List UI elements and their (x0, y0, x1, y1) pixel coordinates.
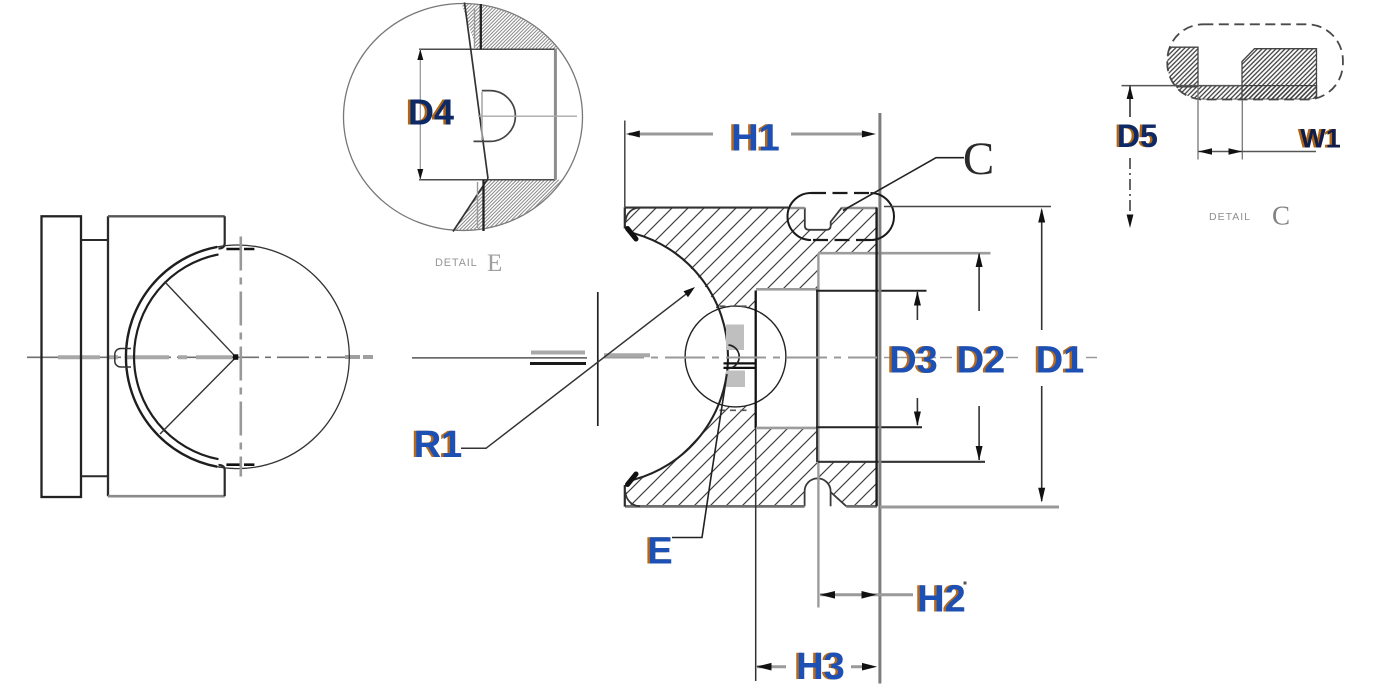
left view: body left edge (107, 216, 109, 496)
dimension D2: line (978, 254, 980, 460)
counterbore bottom edge (extends to D2) (818, 461, 985, 463)
center slit lines (724, 363, 756, 368)
ball seat gray groove lower (726, 371, 745, 388)
dimension D1: arrows (1038, 208, 1045, 223)
dimension H1: extension line left (624, 121, 626, 208)
corner fillet bottom-left (626, 492, 641, 506)
left view: socket band inner arc (134, 254, 218, 459)
detail E: D4 arrows (417, 49, 423, 60)
dimension H3: arrows (756, 663, 771, 671)
dimension H1: line (629, 133, 862, 136)
groove outline (bottom) (805, 478, 847, 506)
section view: upper hatched body (625, 208, 877, 311)
left face edges (624, 207, 626, 506)
svg-text:H3: H3 (796, 646, 845, 688)
svg-text:C: C (963, 133, 994, 185)
left view: corner dash ticks (226, 248, 254, 251)
detail E: magnified socket arc line lower (453, 179, 488, 232)
detail C: right block hatch (1242, 49, 1317, 100)
svg-text:D4: D4 (408, 92, 454, 133)
detail C: left block hatch (1160, 47, 1198, 87)
bore left wall extension (H3) (755, 428, 757, 681)
detail E: bubble ellipse (344, 4, 583, 231)
left view: body right edge top segment + hook (219, 216, 225, 248)
dimension D2: arrows (976, 253, 983, 268)
svg-text:DETAIL: DETAIL (435, 257, 478, 269)
detail C: W1 arrows (1198, 148, 1212, 155)
label E with leader (672, 374, 727, 538)
svg-text:W1: W1 (1300, 124, 1341, 154)
groove white cut (bottom) (805, 478, 831, 507)
svg-text:DETAIL: DETAIL (1209, 211, 1251, 223)
detail C: groove floor line extended (1122, 85, 1243, 87)
detail E: dark wall verticals (481, 4, 484, 231)
svg-text:D2: D2 (957, 340, 1006, 382)
left view: flange rectangle (42, 216, 82, 497)
detail C indicator stadium (787, 193, 894, 240)
left view: socket band outer arc (126, 247, 217, 467)
dimension H3: line (757, 665, 865, 668)
hidden dashed line lower (720, 409, 750, 411)
left view: vertical centerline (240, 237, 243, 477)
socket arc end blob bottom (628, 474, 637, 485)
detail E: notch wall gray (481, 92, 483, 140)
left view: center dot (233, 354, 239, 360)
svg-text:R1: R1 (414, 424, 463, 466)
left view: body bottom edge (108, 495, 225, 498)
left view: neck lines (81, 240, 108, 476)
notch bump arc at center (729, 345, 740, 369)
dimension H2: arrows (820, 591, 835, 599)
sphere center crosshair vertical (597, 292, 599, 426)
hidden dashed line upper (720, 305, 750, 307)
ball seat gray groove upper (726, 325, 744, 351)
detail E: centerline (478, 115, 577, 117)
centerline black dash segments (530, 362, 586, 365)
dimension D1: extension top (884, 206, 1051, 208)
dimension H2: line (820, 593, 913, 596)
detail E: magnified socket arc line upper (465, 3, 489, 179)
label R1 with leader (461, 291, 691, 449)
socket arc end blob top (628, 229, 637, 240)
left view: big circle (126, 245, 350, 469)
left view: body right edge bottom segment + hook (219, 465, 225, 496)
svg-text:C: C (1272, 201, 1290, 231)
bore left wall (755, 291, 757, 429)
dimension D1: extension bottom (880, 506, 1059, 509)
detail C: D5 dash-dot lower with down arrow (1129, 158, 1131, 221)
detail E: magnified bore bottom edge (419, 179, 555, 181)
detail E: gray parallels (475, 8, 478, 228)
dimension D3: arrows (914, 291, 921, 306)
dimension D3: line (916, 292, 918, 425)
detail E: magnified bore top edge (419, 48, 555, 50)
ball circle (detail E area) (685, 306, 786, 407)
svg-text:D3: D3 (889, 340, 938, 382)
detail C: W1 extension lines (1198, 88, 1242, 160)
detail C: D5 dimension line with up arrow (1129, 86, 1131, 117)
detail E: notch semicircle (474, 91, 516, 142)
section view: lower hatched body (625, 402, 877, 506)
horizontal centerline main (27, 356, 371, 358)
svg-text:E: E (487, 250, 502, 277)
groove C white cut (top) (805, 207, 842, 230)
svg-text:H2: H2 (917, 579, 966, 621)
label C with leader (843, 158, 964, 211)
detail E: D4 dimension line (419, 49, 421, 180)
counterbore top edge gray (extends to D2) (818, 252, 991, 255)
top face edge (625, 207, 788, 209)
detail E: top hatch (461, 2, 588, 49)
socket arc (631, 233, 729, 481)
D3 extension bottom (816, 426, 922, 428)
left view: body top edge (108, 215, 225, 217)
left view: radius diagonal lower (160, 357, 236, 434)
detail E: bottom hatch (452, 180, 580, 233)
corner fillet top-left (626, 208, 641, 222)
svg-text:H1: H1 (731, 118, 780, 160)
dimension D1: line (1041, 210, 1043, 501)
left view: notch bump on left (115, 348, 131, 367)
bottom face edge (625, 505, 877, 508)
long vertical extension line (878, 113, 881, 684)
bore top edge gray (756, 288, 818, 291)
D3 extension top (816, 290, 927, 292)
svg-text:D1: D1 (1036, 340, 1085, 382)
left view: radius diagonal upper (165, 282, 237, 358)
detail C: bottom strip hatch (1160, 86, 1317, 100)
dimension H1: arrows (626, 131, 640, 138)
centerline thick gray dashes left of section (345, 355, 373, 359)
right face (875, 208, 877, 507)
counterbore floor vertical gray (817, 253, 819, 607)
detail C: W1 dimension line (1198, 151, 1316, 153)
svg-text:E: E (647, 531, 672, 573)
svg-text:D5: D5 (1117, 118, 1158, 154)
bore bottom edge gray (756, 427, 818, 430)
groove C outline (top) (805, 208, 842, 230)
detail C: bubble stadium (1167, 24, 1343, 99)
detail E: magnified right wall gray (554, 49, 557, 180)
